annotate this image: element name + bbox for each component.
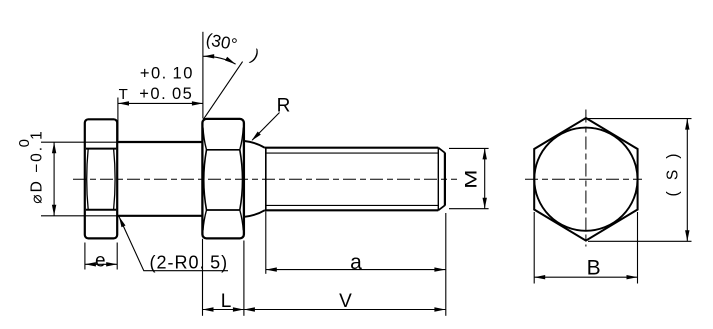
dimension a arrow right <box>434 267 445 271</box>
thread root line top <box>266 152 439 154</box>
hex head chamfer arc bottom-left <box>203 210 207 230</box>
dimension B extension line left <box>533 212 535 284</box>
dimension S arrow up <box>685 119 689 130</box>
centerline main axis <box>73 178 457 180</box>
svg-text:R: R <box>277 96 291 117</box>
complete-thread boundary line <box>265 148 267 211</box>
svg-text:a: a <box>350 251 362 274</box>
dimension S extension line bottom <box>588 240 692 242</box>
right view: hexagon <box>534 118 637 241</box>
svg-text:(2-R0. 5): (2-R0. 5) <box>150 253 229 273</box>
dimension e extension line left <box>84 243 86 270</box>
pilot cylinder top edge <box>117 141 202 143</box>
dimension L arrow left <box>203 307 214 311</box>
dimension a arrow left <box>266 267 277 271</box>
svg-text:0: 0 <box>16 139 33 147</box>
dimension S line <box>686 119 688 242</box>
hex head outline (side view) <box>202 119 244 238</box>
leader 2-R0.5 arrow <box>119 216 126 227</box>
dimension e arrow left <box>85 262 96 266</box>
dimension T extension line right (30deg vertex line) <box>202 32 204 119</box>
fillet R top (head to shank) <box>244 141 264 148</box>
hex nut chamfer arc left <box>87 149 89 210</box>
30deg angle arc <box>203 56 235 64</box>
hex nut chamfer arc right <box>114 149 116 210</box>
hex nut facet line upper <box>86 148 116 150</box>
shank end chamfer bottom diagonal <box>438 205 445 210</box>
dimension phi-D extension line top <box>41 141 117 143</box>
svg-text:e: e <box>95 250 106 271</box>
thread shank crest top edge <box>265 147 439 149</box>
dimension L extension line left <box>202 239 204 316</box>
dimension T arrow right <box>192 101 203 105</box>
dimension M extension line top <box>449 147 489 149</box>
R leader line <box>252 113 279 141</box>
svg-text:T: T <box>119 86 128 103</box>
svg-text:( S ): ( S ) <box>665 150 682 197</box>
shank end face line <box>444 153 446 206</box>
dimension M arrow up <box>483 148 487 159</box>
right view: horizontal centerline <box>525 178 642 180</box>
hex head chamfer arc bottom-right <box>240 210 244 230</box>
dimension a line <box>266 269 446 271</box>
svg-text:L: L <box>221 291 232 312</box>
dimension a/V extension line right <box>445 213 447 316</box>
thread shank crest bottom edge <box>265 209 439 211</box>
fillet R bottom (head to shank) <box>244 210 264 217</box>
thread root line bottom <box>266 204 439 206</box>
hex nut N1 outline (left, side view) <box>85 119 117 238</box>
dimension M line <box>484 148 486 208</box>
leader 2-R0.5 line <box>119 216 228 270</box>
dimension a extension line left <box>265 212 267 274</box>
right view: vertical centerline <box>585 110 587 247</box>
hex nut facet line lower <box>86 209 116 211</box>
hex head facet line upper <box>207 149 240 151</box>
svg-text:M: M <box>462 170 481 189</box>
30deg arc arrow right <box>225 57 236 64</box>
dimension B extension line right <box>637 212 639 284</box>
dimension S arrow down <box>685 230 689 241</box>
dimension phi-D line <box>53 142 55 216</box>
R leader arrow <box>252 132 261 141</box>
dimension e line <box>85 263 117 265</box>
pilot cylinder bottom edge <box>117 215 202 217</box>
dimension T line <box>118 102 203 104</box>
svg-text:B: B <box>587 257 601 280</box>
svg-text:+0. 10: +0. 10 <box>140 65 194 83</box>
svg-text:+0. 05: +0. 05 <box>139 85 193 103</box>
dimension B line <box>534 276 637 278</box>
dimension phi-D extension line bottom <box>41 215 117 217</box>
thread end chamfer circle line <box>437 148 439 211</box>
hex head facet line lower <box>207 209 240 211</box>
dimension L line <box>203 309 244 311</box>
hex head chamfer arc top-left <box>203 128 207 150</box>
dimension e arrow right <box>106 262 117 266</box>
dimension L arrow right <box>233 307 244 311</box>
dimension B arrow left <box>534 275 545 279</box>
dimension e extension line right <box>116 243 118 270</box>
dimension T arrow left <box>118 101 129 105</box>
dimension V line <box>244 309 446 311</box>
dimension phi-D arrow down <box>52 205 56 216</box>
svg-text:V: V <box>339 291 352 312</box>
dimension V arrow right <box>434 307 445 311</box>
right view: inscribed circle <box>534 128 637 231</box>
dimension V extension line left <box>243 241 245 316</box>
shank end chamfer top diagonal <box>438 148 445 153</box>
dimension phi-D arrow up <box>52 142 56 153</box>
dimension V arrow left <box>244 307 255 311</box>
dimension M extension line bottom <box>449 208 489 210</box>
dimension M arrow down <box>483 198 487 209</box>
hex head chamfer arc top-right <box>240 128 244 150</box>
hex head chamfer arc middle-left <box>204 150 207 210</box>
dimension T extension line left <box>117 98 119 141</box>
30deg chamfer slant line <box>203 62 242 120</box>
30deg arc arrow left <box>203 54 214 58</box>
dimension B arrow right <box>627 275 638 279</box>
hex head chamfer arc middle-right <box>240 150 243 210</box>
dimension S extension line top <box>588 118 692 120</box>
